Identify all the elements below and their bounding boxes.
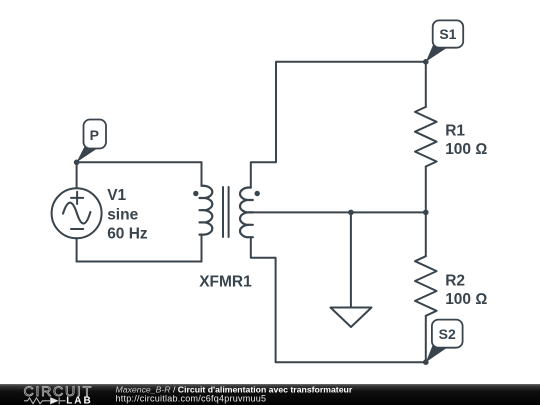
probe S1 box (433, 20, 464, 47)
wire bottom-left rail (77, 261, 202, 263)
node R1-R2 junction dot (423, 210, 429, 216)
wire R2 to S2 (425, 316, 427, 362)
wire secondary bottom to riser (251, 237, 426, 362)
svg-text:R1: R1 (445, 122, 465, 139)
svg-text:S2: S2 (439, 326, 456, 342)
transformer XFMR1 primary winding (200, 186, 213, 235)
footer logo diode (50, 397, 58, 404)
svg-text:V1: V1 (107, 187, 126, 204)
svg-text:LAB: LAB (66, 396, 93, 405)
node S1 junction dot (423, 59, 429, 65)
svg-text:P: P (90, 127, 99, 143)
probe P tail (77, 146, 97, 163)
probe S2 box (432, 320, 463, 348)
svg-text:http://circuitlab.com/c6fq4pru: http://circuitlab.com/c6fq4pruvmuu5 (116, 393, 267, 403)
wire primary bottom (201, 235, 203, 262)
wire left rail lower (76, 238, 78, 261)
wire S1 to R1 (425, 62, 427, 107)
wire secondary top to riser (251, 62, 426, 188)
probe S1 tail (426, 44, 447, 62)
voltage source V1 (52, 188, 102, 238)
svg-text:60 Hz: 60 Hz (107, 226, 148, 243)
svg-text:R2: R2 (445, 272, 465, 289)
wire left rail upper (76, 162, 78, 188)
secondary dot (255, 191, 260, 196)
node tap junction dot (348, 210, 354, 216)
svg-text:100 Ω: 100 Ω (445, 291, 487, 308)
svg-text:sine: sine (107, 206, 138, 223)
svg-text:100 Ω: 100 Ω (445, 141, 487, 158)
svg-text:XFMR1: XFMR1 (199, 273, 252, 290)
probe P box (84, 120, 107, 149)
ground (331, 212, 372, 327)
transformer XFMR1 secondary winding (240, 188, 253, 238)
node P junction dot (74, 160, 80, 166)
probe S2 tail (426, 344, 447, 362)
node S2 junction dot (423, 359, 429, 365)
wire node to R2 (425, 212, 427, 256)
resistor R2 (415, 256, 437, 316)
svg-text:S1: S1 (439, 26, 456, 42)
wire center tap (251, 211, 426, 213)
footer logo symbol (24, 397, 66, 404)
wire R1 to node (425, 167, 427, 213)
wire primary top (201, 162, 203, 186)
wire top-left rail (77, 161, 202, 163)
resistor R1 (415, 107, 437, 167)
primary dot (193, 191, 198, 196)
transformer core (223, 187, 229, 237)
footer bar (0, 384, 540, 405)
